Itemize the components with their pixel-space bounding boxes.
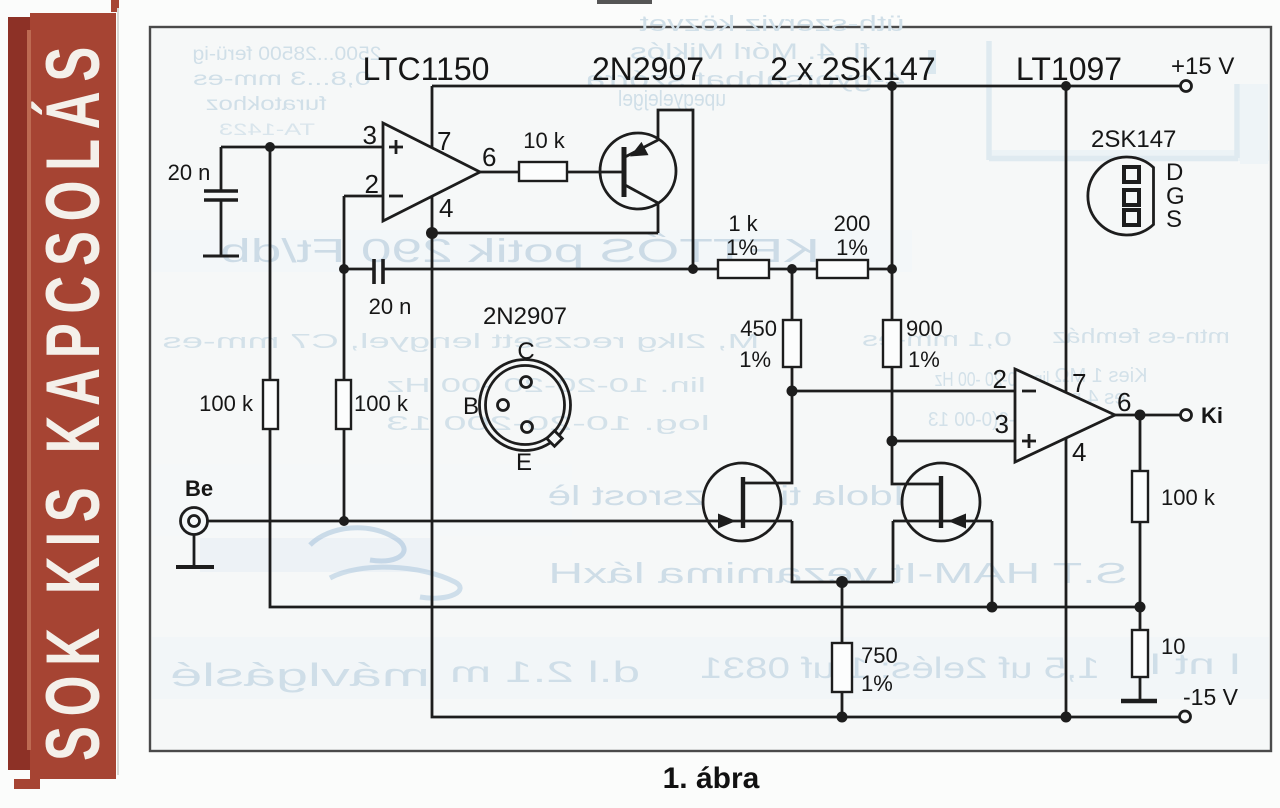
svg-text:Be: Be (185, 476, 213, 501)
svg-text:+15 V: +15 V (1171, 53, 1234, 80)
svg-text:4: 4 (1072, 437, 1086, 467)
svg-text:LT1097: LT1097 (1016, 51, 1122, 87)
svg-text:3: 3 (995, 409, 1009, 439)
svg-text:1%: 1% (908, 347, 940, 372)
svg-text:20 n: 20 n (369, 294, 412, 319)
svg-text:üth-szerviz közvet: üth-szerviz közvet (639, 11, 904, 35)
svg-text:1%: 1% (739, 347, 771, 372)
svg-text:6: 6 (482, 142, 496, 172)
svg-text:100 k: 100 k (354, 391, 409, 416)
svg-text:100 k: 100 k (199, 391, 254, 416)
svg-text:2: 2 (993, 364, 1007, 394)
svg-text:M, 2lkg reczsett lengyel, C7 m: M, 2lkg reczsett lengyel, C7 mm-es (163, 330, 760, 352)
svg-text:1%: 1% (861, 671, 893, 696)
svg-text:4: 4 (439, 193, 453, 223)
svg-text:TA-1423: TA-1423 (219, 119, 315, 139)
svg-text:mávlgáslé: mávlgáslé (170, 657, 430, 693)
svg-text:Ki: Ki (1201, 403, 1223, 428)
svg-text:2500...28500 ferü-ig: 2500...28500 ferü-ig (192, 44, 381, 65)
svg-text:20 n: 20 n (168, 160, 211, 185)
svg-text:log. 10-20-200 13: log. 10-20-200 13 (386, 412, 710, 434)
svg-text:d.l 2.1 m: d.l 2.1 m (450, 655, 640, 689)
svg-text:B: B (463, 393, 479, 420)
svg-text:1. ábra: 1. ábra (663, 762, 760, 795)
svg-text:1%: 1% (726, 235, 758, 260)
svg-text:100 k: 100 k (1161, 485, 1216, 510)
svg-text:10: 10 (1161, 634, 1185, 659)
svg-text:1,5 uf 2elés: 1 uf 0831: 1,5 uf 2elés: 1 uf 0831 (700, 651, 1100, 685)
svg-text:7: 7 (1072, 368, 1086, 398)
svg-text:upegyelejgel: upegyelejgel (618, 87, 726, 111)
svg-text:LTC1150: LTC1150 (363, 51, 490, 87)
svg-text:1 k: 1 k (728, 211, 758, 236)
svg-text:3: 3 (363, 120, 377, 150)
svg-text:D: D (1166, 159, 1183, 186)
svg-text:7: 7 (437, 126, 451, 156)
svg-text:900: 900 (906, 316, 943, 341)
svg-text:S: S (1166, 206, 1182, 233)
svg-text:-15 V: -15 V (1183, 684, 1239, 710)
svg-text:lin. 10-20-20 -00 Hz: lin. 10-20-20 -00 Hz (386, 374, 706, 396)
svg-text:2N2907: 2N2907 (592, 51, 704, 87)
svg-text:2SK147: 2SK147 (1091, 126, 1176, 153)
svg-text:Kies 1 MΩ: Kies 1 MΩ (1055, 365, 1148, 387)
svg-text:10 k: 10 k (523, 128, 566, 153)
svg-text:2N2907: 2N2907 (483, 303, 567, 330)
svg-text:6: 6 (1117, 387, 1131, 417)
svg-text:750: 750 (861, 643, 898, 668)
svg-text:200: 200 (834, 211, 871, 236)
svg-text:C: C (517, 338, 534, 365)
svg-text:SOK KIS KAPCSOLÁS: SOK KIS KAPCSOLÁS (31, 37, 116, 761)
svg-text:mtn-es femház: mtn-es femház (1052, 326, 1230, 348)
svg-text:2 x 2SK147: 2 x 2SK147 (770, 51, 935, 87)
svg-text:furatokhoz: furatokhoz (205, 92, 326, 114)
svg-text:0,8...3 mm-es: 0,8...3 mm-es (193, 69, 371, 90)
svg-text:2: 2 (365, 169, 379, 199)
svg-text:E: E (516, 449, 532, 476)
svg-text:450: 450 (740, 316, 777, 341)
svg-text:1%: 1% (836, 235, 868, 260)
